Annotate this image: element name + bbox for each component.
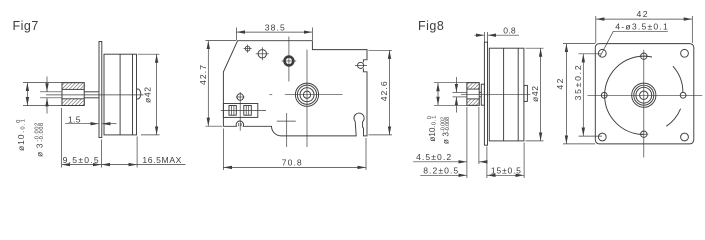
dim phi3 (fig8) text [441, 117, 452, 144]
svg-text:-0.1: -0.1 [432, 116, 438, 128]
svg-text:70.8: 70.8 [282, 158, 302, 168]
washer [481, 84, 484, 105]
centerline vertical [643, 50, 645, 158]
pinion hatch top [467, 83, 479, 89]
dim 42 top [595, 16, 597, 43]
Fig8 label [418, 19, 444, 33]
dim 1.5 [65, 123, 99, 125]
centerline horizontal [588, 94, 703, 96]
svg-text:9.5±0.5: 9.5±0.5 [63, 155, 99, 165]
svg-text:-0.008: -0.008 [445, 117, 451, 132]
svg-text:-0.1: -0.1 [20, 119, 26, 133]
pinion hatch top [62, 83, 84, 90]
dim 9.5 line [62, 164, 102, 166]
svg-text:ø10: ø10 [428, 127, 437, 141]
dim phi3 dimension line (arrows outside) [46, 77, 48, 92]
pinion outline [467, 83, 479, 106]
motor body [104, 54, 137, 135]
dim phi10 text [16, 119, 27, 151]
svg-text:4.5±0.2: 4.5±0.2 [416, 152, 451, 162]
connector pins group2 [244, 106, 252, 116]
dim phi3 (fig8) ext lines [453, 91, 467, 93]
hole c1 [245, 46, 250, 51]
output boss circles [295, 83, 318, 106]
screw hole W [601, 92, 607, 98]
svg-text:ø3: ø3 [442, 132, 451, 144]
svg-text:38.5: 38.5 [265, 22, 285, 32]
leader 4-phi3.5 [613, 30, 668, 32]
connector screw circle [237, 94, 244, 101]
pinion hatch bottom [62, 99, 84, 106]
dim phi42 line [156, 54, 158, 135]
shaft centerline [461, 94, 531, 96]
pinion (knurled) outline [62, 83, 84, 106]
shaft stub [479, 91, 481, 93]
dim phi42 (fig8) ext lines [526, 47, 544, 49]
svg-text:-0.008: -0.008 [39, 123, 45, 142]
dark ring hole [285, 57, 294, 66]
bottom bump inner ticks [238, 123, 240, 126]
corner hole TL [598, 49, 606, 57]
bolt circle arcs [666, 109, 680, 127]
svg-text:ø42: ø42 [530, 86, 540, 102]
dim phi10 extension lines [23, 82, 62, 84]
svg-text:15±0.5: 15±0.5 [491, 166, 521, 176]
square flange [595, 44, 694, 144]
dim 4.5 [413, 161, 467, 163]
svg-text:42: 42 [555, 78, 565, 89]
dim 8.2 [420, 174, 467, 176]
screw hole S [641, 131, 647, 137]
dim 70.8 [222, 129, 224, 171]
svg-text:ø3: ø3 [35, 143, 45, 157]
svg-text:42: 42 [637, 9, 648, 19]
dim 38.5 [235, 28, 237, 41]
boss centerlines [285, 94, 343, 96]
corner hole BL [598, 133, 606, 141]
pinion hatch bottom [467, 99, 479, 105]
plate outline [223, 41, 367, 136]
dim phi3 extension lines [40, 91, 62, 93]
rear terminal [524, 85, 528, 101]
svg-text:4-ø3.5±0.1: 4-ø3.5±0.1 [615, 22, 668, 32]
body seam lines [119, 54, 121, 135]
edge screw circle (right notch) [358, 62, 364, 68]
dim 42.6 [369, 49, 393, 51]
svg-text:ø10: ø10 [16, 134, 26, 151]
connector pins group1 [229, 106, 236, 116]
flange plate edge-on [99, 42, 102, 138]
corner hole TR [681, 49, 689, 57]
svg-text:8.2±0.5: 8.2±0.5 [423, 166, 458, 176]
dim 15 [487, 174, 524, 176]
dim 42 left [563, 43, 595, 45]
dim phi3 text [34, 123, 45, 157]
dim 0.8 [483, 32, 485, 42]
svg-text:1.5: 1.5 [68, 114, 81, 124]
flange plate [484, 42, 487, 145]
shaft centerline [46, 94, 144, 96]
crosshair node [277, 120, 296, 122]
dim 9.5 extension lines [61, 108, 63, 168]
svg-text:ø42: ø42 [143, 87, 153, 103]
dim 35 [579, 53, 602, 55]
dim phi42 (side) extension lines [138, 53, 160, 55]
fig8 bottom dim ext lines [466, 107, 468, 178]
center boss circles [632, 83, 656, 107]
svg-text:16.5MAX: 16.5MAX [142, 155, 181, 165]
screw hole N [641, 53, 647, 59]
dim 42.7 [206, 40, 237, 42]
svg-text:35±0.2: 35±0.2 [573, 65, 583, 100]
svg-text:Fig7: Fig7 [13, 19, 39, 33]
corner hole BR [681, 133, 689, 141]
connector block [223, 104, 257, 118]
dim phi10 dimension line [26, 83, 28, 106]
Fig7 label [13, 19, 39, 33]
svg-text:Fig8: Fig8 [418, 19, 444, 33]
hole c2 [258, 50, 266, 58]
screw hole E [680, 92, 686, 98]
svg-text:42.6: 42.6 [379, 81, 389, 101]
svg-text:0.8: 0.8 [503, 26, 516, 36]
svg-text:42.7: 42.7 [198, 65, 208, 85]
dim 16.5MAX line [101, 164, 137, 166]
body seams [503, 48, 505, 141]
dim phi10 (fig8) ext lines [434, 82, 467, 84]
motor body [489, 48, 524, 141]
shaft lines to flange [84, 91, 99, 93]
rear terminal bump [137, 89, 141, 99]
dim phi10 (fig8) text [427, 116, 438, 142]
